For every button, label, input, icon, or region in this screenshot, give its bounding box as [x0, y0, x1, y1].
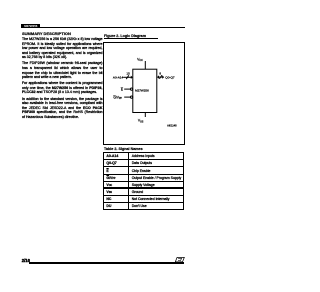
svg-text:VSS: VSS — [138, 119, 144, 124]
svg-text:M27W256: M27W256 — [135, 89, 149, 93]
bubble G active low — [131, 96, 133, 98]
footer page number 2/16 — [22, 258, 30, 263]
arrowhead A0-A14 into chip — [131, 76, 133, 79]
wire E input — [125, 88, 131, 90]
svg-text:VCC: VCC — [137, 58, 143, 63]
header part-number box — [21, 24, 40, 28]
svg-text:G/VPP: G/VPP — [114, 96, 123, 101]
wire G/VPP input — [125, 96, 131, 98]
svg-text:E: E — [121, 88, 123, 92]
bubble E active low — [131, 88, 133, 90]
bus slash Q0-Q7 — [160, 75, 163, 79]
wire VCC supply — [145, 61, 147, 69]
heading SUMMARY DESCRIPTION — [22, 31, 103, 36]
ST logo — [175, 257, 185, 263]
table title — [104, 147, 143, 151]
svg-text:15: 15 — [127, 72, 131, 76]
chip M27W256 — [133, 69, 157, 112]
svg-text:A0-A14: A0-A14 — [113, 76, 124, 80]
figure title underline — [104, 37, 159, 40]
header rule — [40, 27, 185, 28]
thick rule between VCC and VSS table rows — [103, 187, 183, 189]
svg-text:8: 8 — [160, 72, 162, 76]
footer rule — [29, 262, 184, 264]
arrowhead Q0-Q7 in — [157, 76, 159, 79]
bus slash A0-A14 — [127, 76, 130, 80]
wire data bus Q0-Q7 — [159, 76, 163, 78]
svg-text:Q0-Q7: Q0-Q7 — [166, 76, 176, 80]
figure title — [104, 34, 146, 38]
svg-text:AI01148: AI01148 — [167, 124, 177, 128]
logic diagram svg — [103, 42, 184, 144]
wire VSS ground — [145, 113, 147, 118]
left column — [22, 31, 103, 121]
arrowhead Q0-Q7 out — [163, 76, 165, 79]
figure frame — [103, 42, 185, 144]
wire address bus A0-A14 — [124, 77, 132, 79]
signal names table — [103, 152, 183, 209]
